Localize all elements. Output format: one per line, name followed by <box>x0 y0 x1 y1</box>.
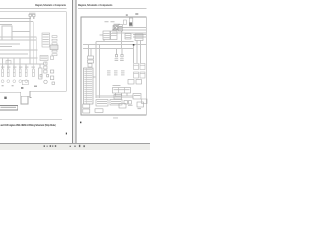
battery BAT2 <box>33 14 35 16</box>
right page header rule <box>78 7 147 10</box>
connector table T2 <box>40 56 48 61</box>
injector INJ6 <box>33 69 35 77</box>
right page footer mark <box>80 122 81 124</box>
wire <box>99 45 101 99</box>
terminal TB2 <box>47 75 49 77</box>
terminal node - <box>33 17 34 18</box>
wire <box>112 29 146 31</box>
component box <box>88 64 92 68</box>
labels above cluster <box>105 20 115 23</box>
wires top <box>83 28 146 99</box>
value label <box>29 12 35 15</box>
component box V1 <box>123 20 126 25</box>
vertical bus <box>29 19 31 65</box>
component box M1 <box>125 34 131 40</box>
connector CN1 <box>115 55 117 57</box>
mid-right cluster <box>40 45 58 61</box>
wire <box>100 34 104 36</box>
wire <box>96 97 133 99</box>
component box B4 <box>133 94 141 100</box>
wire <box>96 41 134 43</box>
injector coil rungs <box>2 72 35 74</box>
component box K1 <box>22 80 28 85</box>
component box U4 <box>50 76 53 80</box>
big box top-left <box>2 26 12 40</box>
wire <box>133 45 135 64</box>
gauge G1 <box>44 80 47 83</box>
wire <box>0 46 12 48</box>
injector INJ2 <box>7 69 9 77</box>
wire <box>133 34 146 36</box>
connector block J4 <box>83 109 90 113</box>
wire <box>0 18 30 20</box>
battery BAT1 <box>29 14 31 16</box>
connector CN2 <box>121 55 123 57</box>
pin 6 box <box>52 54 57 56</box>
relay coil bars <box>134 65 146 74</box>
connector stack pin B <box>44 66 47 69</box>
connector table top-right <box>42 33 57 56</box>
connector P4 <box>19 80 22 83</box>
wire <box>0 24 12 26</box>
component box U3 <box>50 70 53 73</box>
bottom toolbar <box>0 143 150 150</box>
left page number mark <box>66 133 67 135</box>
terminal node + <box>30 17 31 18</box>
filter element dark body <box>129 22 132 25</box>
vertical bus <box>32 22 34 65</box>
component box B3 <box>114 95 122 100</box>
wire <box>126 93 128 96</box>
connector CN3 <box>124 101 128 105</box>
wire <box>103 40 105 42</box>
right page header text <box>78 4 113 7</box>
left page caption <box>0 124 56 128</box>
sensor box B2 <box>110 100 122 106</box>
connector P2 <box>7 80 10 83</box>
wire <box>121 49 123 55</box>
sensor box B1 <box>96 100 108 107</box>
connector P3 <box>13 80 16 83</box>
ground <box>2 84 4 87</box>
wire <box>83 48 134 50</box>
pin 1 box <box>52 36 57 38</box>
connector P1 <box>88 60 94 63</box>
vertical bus <box>35 37 37 64</box>
gap band between the two pages <box>72 0 76 143</box>
wire <box>12 31 30 33</box>
ground <box>12 84 14 87</box>
separator line under figure <box>0 118 62 121</box>
step notch <box>30 96 32 97</box>
pin 3 box <box>52 43 57 45</box>
mid label columns <box>107 71 125 76</box>
wire <box>96 95 133 97</box>
connector J1 <box>88 56 94 59</box>
value label <box>126 14 128 16</box>
relay K5 <box>140 72 145 78</box>
component drop wires <box>2 58 4 69</box>
connector stack pin A <box>44 62 47 65</box>
wire <box>121 93 123 96</box>
wire <box>0 36 36 38</box>
wire <box>115 93 117 96</box>
component box B7 <box>142 99 148 104</box>
component box M2 <box>135 34 143 41</box>
battery cluster top <box>29 13 35 19</box>
left frame top <box>0 11 66 13</box>
wire <box>136 41 138 64</box>
relay K4 <box>134 72 139 78</box>
small box above component row <box>6 61 11 65</box>
component box B5 <box>119 104 126 109</box>
tall ECM connector box <box>84 68 94 104</box>
fuse block F1 <box>119 25 123 32</box>
ground <box>34 86 37 87</box>
connector P1 <box>1 80 4 83</box>
component box R1 <box>128 80 134 85</box>
wire <box>88 45 90 57</box>
component box B8 <box>95 109 103 113</box>
toolbar icons right cluster <box>70 145 85 147</box>
frame lower protrusion <box>21 96 28 104</box>
title block text smudge <box>1 107 17 108</box>
wire <box>90 49 92 57</box>
junction dot <box>133 44 135 46</box>
wire <box>0 43 20 45</box>
ECM box inner column line <box>86 68 88 104</box>
toolbar icons left cluster <box>44 145 57 147</box>
terminal TB3 <box>52 82 55 84</box>
wire <box>140 41 142 64</box>
wire <box>121 31 123 49</box>
wire <box>0 53 28 55</box>
ground <box>21 87 23 89</box>
component labels row <box>1 67 35 68</box>
value label <box>135 13 138 15</box>
pin 5 box <box>52 50 57 52</box>
title block box bottom-left <box>0 105 18 110</box>
connector block J3 <box>83 104 90 108</box>
component box B6 <box>137 102 144 107</box>
filter component FLT1 <box>129 18 133 26</box>
injector INJ4 <box>19 69 21 77</box>
wire <box>83 44 146 46</box>
injector INJ5 <box>25 69 27 77</box>
wire <box>118 27 146 29</box>
left page header text <box>35 4 66 8</box>
wire <box>0 21 33 23</box>
wire <box>116 49 118 55</box>
connector CN4 <box>129 101 132 105</box>
connector stack pin C <box>44 70 47 73</box>
injector INJ1 <box>2 69 4 77</box>
label above wide box <box>113 84 121 87</box>
connector block P2 <box>111 31 118 40</box>
wire <box>0 57 38 59</box>
wire <box>112 32 146 34</box>
terminal TB1 <box>40 75 42 77</box>
component box S1 <box>114 26 118 29</box>
hatched component box H1 <box>50 45 58 50</box>
right frame <box>81 17 146 115</box>
wide mid box <box>113 88 131 94</box>
injector INJ3 <box>13 69 15 77</box>
component box R2 <box>136 80 142 85</box>
left frame right edge <box>65 12 67 92</box>
pin 4 box <box>52 46 57 48</box>
wire <box>93 76 96 78</box>
wire <box>133 36 146 38</box>
left page header rule <box>0 7 66 10</box>
relay K3 <box>140 64 145 70</box>
wire <box>0 39 36 41</box>
connector P5 <box>25 80 28 83</box>
component box U2 <box>39 68 42 79</box>
dark figure symbol above title block <box>4 97 6 99</box>
relay K2 <box>134 64 139 70</box>
pin 2 box <box>52 39 57 41</box>
wire <box>0 49 38 51</box>
wire <box>0 63 44 65</box>
wire <box>95 42 97 99</box>
left frame stepped bottom <box>0 91 66 96</box>
lamp/beacon X1 <box>113 26 118 31</box>
connector block J2 <box>103 31 110 40</box>
